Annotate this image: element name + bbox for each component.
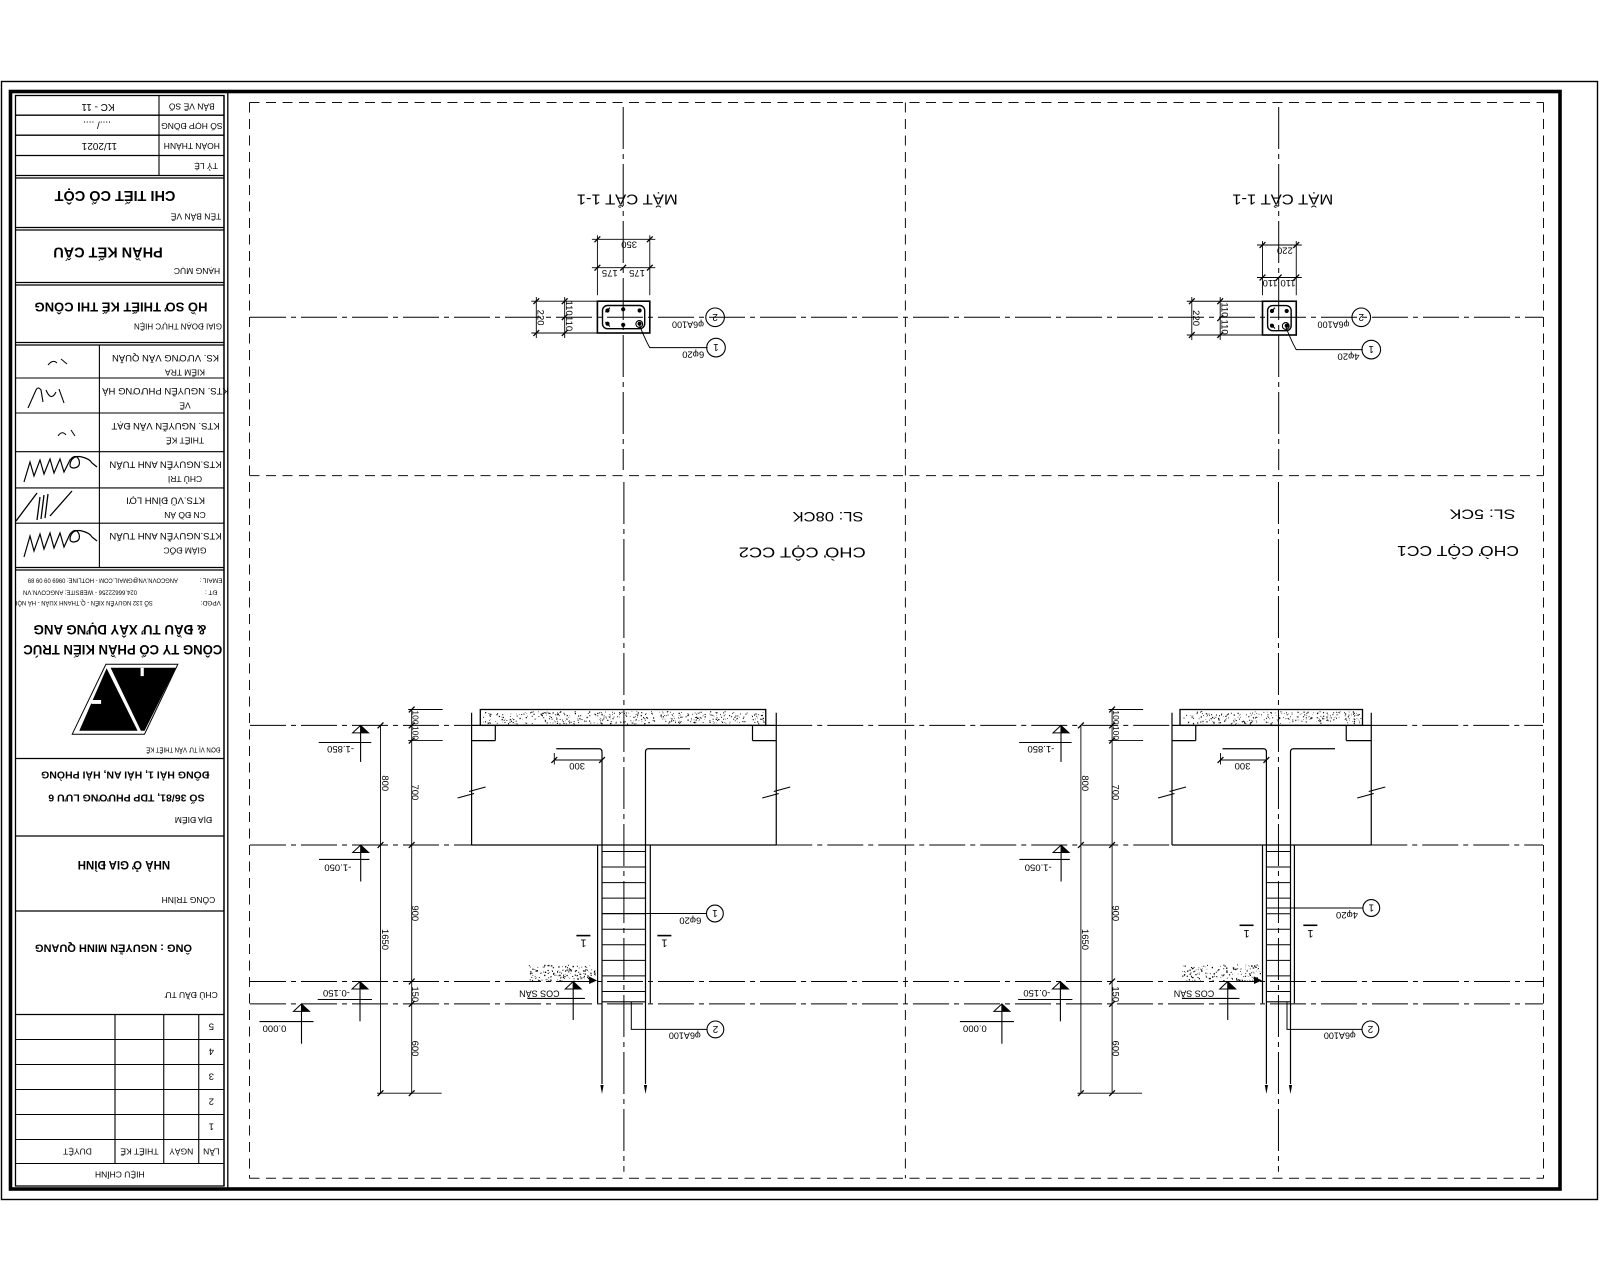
svg-text:THIẾT KẾ: THIẾT KẾ <box>166 435 204 445</box>
svg-text:1: 1 <box>1243 927 1249 939</box>
svg-text:KTS.NGUYỄN ANH TUẤN: KTS.NGUYỄN ANH TUẤN <box>109 530 221 542</box>
svg-text:TÊN BẢN VẼ: TÊN BẢN VẼ <box>170 211 221 222</box>
drawing area left border <box>227 92 229 1190</box>
svg-text:110: 110 <box>1219 320 1230 335</box>
ANG logo letter V shape <box>111 668 176 731</box>
CC1 vertical centerline <box>1278 107 1280 470</box>
CC1 dirt speckles at COS SAN <box>1182 965 1261 982</box>
CC2 rebar end arrows <box>600 1085 603 1094</box>
svg-text:4φ20: 4φ20 <box>1337 350 1359 361</box>
CC2 elevation centerline <box>623 482 625 1172</box>
svg-text:DUYỆT: DUYỆT <box>63 1147 92 1157</box>
CC1 level flag -0.150 <box>1052 982 1068 990</box>
CC1 right step <box>1345 725 1347 740</box>
svg-text:KTS.VŨ ĐÌNH LỢI: KTS.VŨ ĐÌNH LỢI <box>126 495 205 506</box>
svg-text:-0.150: -0.150 <box>1023 987 1050 998</box>
CC2 starter rebar right L-bar <box>646 749 691 1084</box>
CC1 left step <box>1195 725 1197 740</box>
svg-text:1: 1 <box>712 907 718 918</box>
svg-text:4: 4 <box>209 1046 214 1057</box>
CC1 level flag -1.850 <box>1053 725 1069 733</box>
svg-text:φ6A100: φ6A100 <box>669 1030 701 1040</box>
CC1 stirrup rungs <box>1266 851 1290 853</box>
CC2 leader 2 phi6A100 <box>706 308 725 327</box>
svg-text:220: 220 <box>1277 244 1293 255</box>
title block section boundary lines <box>16 175 225 177</box>
svg-text:0.000: 0.000 <box>263 1023 287 1034</box>
svg-text:MẶT CẮT 1-1: MẶT CẮT 1-1 <box>1232 191 1333 209</box>
CC1 left dim 220 <box>1191 297 1193 340</box>
CC2 concrete outline <box>597 301 649 333</box>
svg-text:φ6A100: φ6A100 <box>672 320 704 330</box>
svg-text:2: 2 <box>209 1096 214 1107</box>
svg-text:LẦN: LẦN <box>203 1147 220 1157</box>
CC1 concrete outline <box>1263 301 1297 335</box>
CC2 grade arrow <box>589 977 597 985</box>
svg-text:3: 3 <box>209 1071 214 1082</box>
ANG logo parallelogram <box>72 664 178 734</box>
svg-text:1: 1 <box>580 937 586 949</box>
revision table <box>16 1039 225 1041</box>
CC2 right step <box>752 725 754 740</box>
level line -0.150 <box>250 981 1543 983</box>
CC1 left pedestal wall <box>1171 713 1173 845</box>
svg-text:1650: 1650 <box>379 929 390 950</box>
CC2 starter rebar left L-bar <box>556 749 602 1084</box>
CC2 section marks 1-1 <box>576 935 590 937</box>
svg-text:100: 100 <box>411 726 421 740</box>
CC2 outer dim chain 800 1650 <box>380 725 382 1093</box>
svg-text:220: 220 <box>1190 310 1201 326</box>
svg-text:GIAI ĐOẠN THỰC HIỆN: GIAI ĐOẠN THỰC HIỆN <box>134 322 222 331</box>
svg-text:11/2021: 11/2021 <box>81 140 117 151</box>
svg-text:COS SÂN: COS SÂN <box>1174 989 1215 999</box>
horizontal centerline sections row <box>250 316 1543 318</box>
svg-text:100: 100 <box>1111 710 1121 724</box>
signature squiggle CN DO AN <box>16 491 72 521</box>
svg-text:175: 175 <box>602 267 618 278</box>
CC2 level flag -0.150 <box>352 982 368 990</box>
svg-text:..../ ....: ..../ .... <box>83 119 111 130</box>
svg-text:600: 600 <box>1110 1041 1121 1057</box>
ANG logo letter A triangle <box>79 668 137 731</box>
CC2 dim extension lines <box>408 709 443 711</box>
svg-text:1: 1 <box>1368 902 1374 913</box>
svg-text:110: 110 <box>1280 277 1295 288</box>
svg-text:-1.850: -1.850 <box>1027 743 1054 754</box>
CC1 top dim halves <box>1257 277 1302 279</box>
svg-text:-1.050: -1.050 <box>324 862 351 873</box>
CC1 leader 2 phi6A100 <box>1352 308 1371 327</box>
svg-text:KTS. NGUYỄN VĂN ĐẠT: KTS. NGUYỄN VĂN ĐẠT <box>111 420 219 432</box>
CC1 leader 1 <box>1286 328 1363 350</box>
CC1 dim 300 top leg <box>1220 753 1222 765</box>
svg-text:900: 900 <box>409 905 420 921</box>
svg-text:-1.850: -1.850 <box>327 743 354 754</box>
CC2 left dim 110 110 <box>564 297 566 338</box>
svg-text:SỐ 36/81, TDP PHƯƠNG LƯU 6: SỐ 36/81, TDP PHƯƠNG LƯU 6 <box>48 791 204 805</box>
svg-text:1650: 1650 <box>1079 929 1090 950</box>
CC1 left dim 110 110 <box>1219 297 1221 340</box>
viewport divider vertical <box>904 103 906 1179</box>
svg-text:1: 1 <box>661 937 667 949</box>
svg-text:300: 300 <box>569 760 585 771</box>
CC2 level flag -1.050 <box>353 845 369 853</box>
svg-text:1: 1 <box>1307 927 1313 939</box>
svg-text:-1.050: -1.050 <box>1025 862 1052 873</box>
CC1 rebar end arrows <box>1265 1085 1268 1094</box>
CC1 outer dim chain 800 1650 <box>1080 725 1082 1093</box>
svg-text:CN ĐỒ ÁN: CN ĐỒ ÁN <box>164 510 206 521</box>
svg-text:CHỜ CỘT CC1: CHỜ CỘT CC1 <box>1397 542 1519 559</box>
svg-text:CHI TIẾT CỔ CỘT: CHI TIẾT CỔ CỘT <box>54 187 175 205</box>
svg-text:700: 700 <box>409 784 420 800</box>
svg-text:-0.150: -0.150 <box>323 987 350 998</box>
signature rows <box>16 377 225 379</box>
CC2 inner dim chain <box>411 710 413 1094</box>
CC2 right pedestal wall <box>775 713 777 845</box>
svg-text:350: 350 <box>621 239 637 250</box>
svg-text:ĐÔNG HẢI 1, HẢI AN, HẢI PHÒNG: ĐÔNG HẢI 1, HẢI AN, HẢI PHÒNG <box>41 768 209 781</box>
svg-text:ĐƠN VỊ TƯ VẤN THIẾT KẾ: ĐƠN VỊ TƯ VẤN THIẾT KẾ <box>146 745 220 755</box>
svg-text:CÔNG TY CỔ PHẦN KIẾN TRÚC: CÔNG TY CỔ PHẦN KIẾN TRÚC <box>23 642 222 657</box>
svg-text:100: 100 <box>411 710 421 724</box>
svg-text:NHÀ Ở GIA ĐÌNH: NHÀ Ở GIA ĐÌNH <box>78 858 170 871</box>
svg-text:HOÀN THÀNH: HOÀN THÀNH <box>164 141 220 151</box>
signature mark THIET KE <box>58 430 75 436</box>
svg-text:BẢN VẼ SỐ: BẢN VẼ SỐ <box>169 102 215 113</box>
svg-text:φ6A100: φ6A100 <box>1318 320 1350 330</box>
svg-text:600: 600 <box>409 1041 420 1057</box>
CC1 dim extension lines <box>1109 709 1144 711</box>
CC2 stirrup <box>603 306 645 329</box>
level line -1.050 <box>250 844 472 846</box>
CC2 top dim halves <box>592 267 655 269</box>
CC1 level flag -1.050 <box>1053 845 1069 853</box>
svg-text:150: 150 <box>409 986 420 1002</box>
svg-text:110: 110 <box>563 301 574 316</box>
CC2 footing slab <box>480 710 765 726</box>
CC1 section marks 1-1 <box>1240 924 1254 926</box>
CC2 COS SAN level flag <box>565 982 581 990</box>
svg-text:COS SÂN: COS SÂN <box>519 989 560 999</box>
svg-text:4φ20: 4φ20 <box>1336 909 1358 920</box>
signature squiggle GIAM DOC <box>24 531 97 558</box>
CC1 starter rebar right L-bar <box>1291 749 1336 1084</box>
svg-text:6φ20: 6φ20 <box>682 348 704 359</box>
svg-text:150: 150 <box>1110 986 1121 1002</box>
level line -1.850 <box>250 724 472 726</box>
CC2 level flag 0.000 <box>294 1004 310 1012</box>
svg-text:MẶT CẮT 1-1: MẶT CẮT 1-1 <box>577 191 678 209</box>
svg-text:TỶ LỆ: TỶ LỆ <box>194 161 218 172</box>
svg-text:HIỆU CHỈNH: HIỆU CHỈNH <box>95 1170 145 1181</box>
CC2 stirrup rungs <box>602 851 646 853</box>
svg-text:700: 700 <box>1110 784 1121 800</box>
svg-text:2: 2 <box>712 311 718 322</box>
svg-text:ĐT :: ĐT : <box>205 588 217 595</box>
signature mark KIEM TRA <box>48 359 67 365</box>
svg-text:2: 2 <box>1358 311 1364 322</box>
svg-text:900: 900 <box>1110 905 1121 921</box>
svg-text:2: 2 <box>712 1023 718 1034</box>
CC1 footing slab <box>1180 710 1363 726</box>
svg-text:KC - 11: KC - 11 <box>81 101 115 112</box>
title block outer border <box>16 96 225 1187</box>
svg-text:CHỜ CỘT CC2: CHỜ CỘT CC2 <box>739 544 866 561</box>
CC1 wall break symbols <box>1158 794 1175 799</box>
svg-text:KTS.NGUYỄN ANH TUẤN: KTS.NGUYỄN ANH TUẤN <box>109 459 221 471</box>
CC2 dirt speckles at COS SAN <box>529 965 596 982</box>
CC2 dim 300 top leg <box>553 753 555 765</box>
svg-text:110: 110 <box>1263 277 1278 288</box>
svg-text:2: 2 <box>1367 1023 1373 1034</box>
svg-text:KIỂM TRA: KIỂM TRA <box>165 367 205 378</box>
svg-text:220: 220 <box>535 310 546 326</box>
svg-text:EMAIL :: EMAIL : <box>199 577 222 584</box>
CC2 left pedestal wall <box>471 713 473 845</box>
svg-text:5: 5 <box>209 1021 214 1032</box>
CC1 starter rebar left L-bar <box>1223 749 1267 1084</box>
CC1 column outline <box>1262 845 1264 1003</box>
CC2 leader 2 <box>631 1002 707 1030</box>
svg-text:SL: 08CK: SL: 08CK <box>793 509 864 524</box>
CC2 column outline <box>597 845 599 1003</box>
signature mark VE <box>28 388 64 408</box>
CC2 rebar dots <box>605 308 609 312</box>
title block row A divider <box>158 96 160 176</box>
svg-text:φ6A100: φ6A100 <box>1324 1030 1356 1040</box>
svg-text:CHỦ ĐẦU TƯ: CHỦ ĐẦU TƯ <box>164 990 217 1001</box>
svg-text:VPGD:: VPGD: <box>200 599 220 606</box>
signature squiggle CHU TRI <box>24 457 97 483</box>
svg-text:KTS. NGUYỄN PHƯƠNG HÀ: KTS. NGUYỄN PHƯƠNG HÀ <box>102 385 229 397</box>
viewport divider horizontal <box>250 475 1544 477</box>
svg-text:PHẦN KẾT CẤU: PHẦN KẾT CẤU <box>53 243 163 260</box>
CC1 stirrup <box>1268 306 1292 331</box>
svg-text:NGÀY: NGÀY <box>169 1147 193 1157</box>
CC1 grade arrow <box>1254 977 1262 985</box>
svg-text:GIÁM ĐỐC: GIÁM ĐỐC <box>164 546 207 557</box>
CC2 vertical centerline <box>622 107 624 470</box>
CC2 left dim 220 <box>535 297 537 338</box>
svg-text:CHỦ TRÌ: CHỦ TRÌ <box>168 474 202 485</box>
svg-text:ANGCOVN.VN@GMAIL.COM - HOTLINE: ANGCOVN.VN@GMAIL.COM - HOTLINE: 0969 09 … <box>28 577 178 584</box>
CC2 left step <box>494 725 496 740</box>
level line 0.000 <box>250 1003 1543 1005</box>
CC1 leader 2 <box>1287 1002 1362 1030</box>
CC1 level flag 0.000 <box>994 1004 1010 1012</box>
svg-text:SỐ HỢP ĐỒNG: SỐ HỢP ĐỒNG <box>161 121 222 132</box>
svg-text:6φ20: 6φ20 <box>679 914 701 925</box>
CC1 top dim total <box>1262 241 1264 295</box>
CC1 rebar dots <box>1270 309 1274 313</box>
CC1 COS SAN level flag <box>1220 982 1236 990</box>
svg-text:800: 800 <box>379 775 390 791</box>
viewport dashed outer rect <box>250 102 1544 104</box>
svg-text:VẼ: VẼ <box>179 400 191 410</box>
title block row lines section A <box>16 114 225 116</box>
svg-text:THIẾT KẾ: THIẾT KẾ <box>120 1147 158 1157</box>
svg-text:ÔNG : NGUYỄN MINH QUANG: ÔNG : NGUYỄN MINH QUANG <box>35 942 192 955</box>
svg-text:1: 1 <box>713 341 719 352</box>
svg-text:KS. VƯƠNG VĂN QUÂN: KS. VƯƠNG VĂN QUÂN <box>112 352 219 363</box>
CC2 top dim total <box>596 235 598 295</box>
svg-text:CÔNG TRÌNH: CÔNG TRÌNH <box>162 895 216 905</box>
svg-text:1: 1 <box>1368 343 1374 354</box>
svg-text:SL: 5CK: SL: 5CK <box>1450 507 1516 522</box>
svg-text:024.66622256 - WEBSITE: ANGCOV: 024.66622256 - WEBSITE: ANGCOVN.VN <box>23 588 137 595</box>
svg-text:ĐỊA ĐIỂM: ĐỊA ĐIỂM <box>175 815 212 826</box>
CC1 elevation centerline <box>1277 482 1279 1172</box>
CC1 inner dim chain <box>1111 710 1113 1094</box>
svg-text:175: 175 <box>629 267 645 278</box>
svg-text:HỒ SƠ THIẾT KẾ THI CÔNG: HỒ SƠ THIẾT KẾ THI CÔNG <box>35 299 208 314</box>
title block right border <box>223 96 225 1187</box>
CC2 leader 1 <box>602 913 707 915</box>
svg-text:100: 100 <box>1111 726 1121 740</box>
svg-text:& ĐẦU TƯ XÂY DỰNG ANG: & ĐẦU TƯ XÂY DỰNG ANG <box>34 622 207 637</box>
CC1 right pedestal wall <box>1370 713 1372 845</box>
svg-text:HẠNG MỤC: HẠNG MỤC <box>174 266 220 276</box>
CC1 leader 1 <box>1266 907 1363 909</box>
svg-text:0.000: 0.000 <box>963 1023 987 1034</box>
svg-text:300: 300 <box>1235 760 1251 771</box>
CC2 leader 1 <box>640 326 708 348</box>
svg-text:1: 1 <box>209 1121 214 1132</box>
svg-text:110: 110 <box>563 316 574 331</box>
svg-text:800: 800 <box>1079 775 1090 791</box>
CC2 wall break symbols <box>458 794 475 799</box>
svg-text:110: 110 <box>1219 302 1230 317</box>
CC2 level flag -1.850 <box>353 725 369 733</box>
